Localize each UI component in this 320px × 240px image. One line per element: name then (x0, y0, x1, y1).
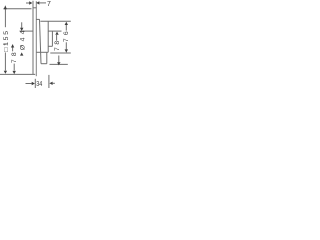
svg-text:Ø44: Ø44 (19, 27, 26, 50)
collar top edge (36, 18, 40, 20)
svg-text:78: 78 (11, 49, 18, 63)
dim 76 (65, 22, 68, 53)
svg-text:34: 34 (36, 81, 42, 88)
grip top edge + ext (48, 30, 61, 32)
dim 7 top (26, 1, 46, 4)
knob top edge + right ext (40, 20, 70, 22)
button bottom edge (41, 63, 47, 65)
knob front (47, 21, 49, 52)
dim 78 left (11, 44, 16, 74)
button front (46, 52, 48, 63)
plate top edge (33, 7, 37, 9)
grip top ext left (20, 30, 34, 32)
svg-text:□155: □155 (3, 29, 10, 52)
plate face (35, 1, 37, 76)
grip front (51, 31, 53, 46)
svg-text:7: 7 (47, 1, 51, 8)
knob bottom ext right (50, 52, 71, 54)
knob bottom edge (36, 51, 48, 53)
svg-text:78: 78 (54, 38, 61, 51)
svg-text:76: 76 (63, 28, 70, 42)
bottom reference line (0, 73, 35, 75)
dim square155 (4, 5, 7, 74)
grip bottom edge (48, 45, 52, 47)
collar front (slanted silhouette) (40, 19, 42, 63)
stub ext left y44 (3, 43, 6, 45)
ext line button bottom right (50, 63, 68, 65)
dim 78 right (55, 32, 60, 66)
dim 34 bottom (26, 75, 55, 88)
wall (32, 1, 34, 75)
dim dia44 (20, 22, 23, 55)
ext line plate top left (3, 8, 31, 10)
